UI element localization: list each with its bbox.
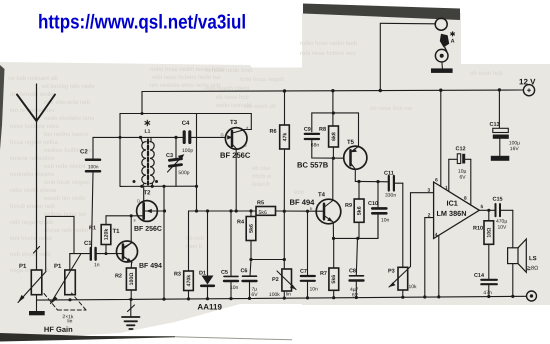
- svg-text:5: 5: [480, 204, 483, 210]
- svg-text:R5: R5: [257, 200, 264, 206]
- svg-text:10Ω: 10Ω: [486, 228, 492, 238]
- svg-text:D1: D1: [199, 271, 206, 277]
- resistor R3: [184, 211, 194, 299]
- svg-text:IC1: IC1: [446, 199, 457, 208]
- svg-text:120k: 120k: [104, 229, 110, 241]
- svg-text:R1: R1: [89, 225, 96, 231]
- tank ground column: [163, 186, 165, 299]
- variable capacitor C3: [168, 137, 185, 186]
- svg-text:R3: R3: [174, 272, 181, 278]
- tank frame box: [120, 92, 251, 187]
- transistor T5: [344, 113, 367, 181]
- svg-text:T3: T3: [230, 119, 238, 126]
- svg-text:ne beb noitsare ab: ne beb noitsare ab: [8, 75, 58, 82]
- svg-text:BF 256C: BF 256C: [220, 151, 251, 160]
- svg-text:5k6: 5k6: [249, 224, 255, 233]
- connector terminal circle: [435, 18, 447, 30]
- svg-text:6V: 6V: [459, 175, 466, 181]
- wire 12V top rail: [142, 90, 523, 92]
- capacitor C4: [184, 132, 225, 143]
- capacitor C10: [372, 182, 386, 239]
- capacitor C12: [449, 154, 471, 164]
- wire tank top node to C4: [120, 136, 183, 138]
- svg-text:nehcse nede bnei: nehcse nede bnei: [205, 67, 252, 74]
- svg-text:16V: 16V: [510, 146, 520, 152]
- svg-text:BF 494: BF 494: [139, 263, 162, 270]
- capacitor C9: [305, 134, 344, 158]
- dashed gang line: [44, 293, 86, 310]
- svg-text:C10: C10: [368, 201, 378, 207]
- svg-text:nese hciltsne rebo: nese hciltsne rebo: [10, 123, 59, 130]
- stem to detector: [196, 114, 198, 212]
- capacitor C5: [224, 211, 238, 299]
- transistor T2: [106, 186, 165, 248]
- svg-text:nedo ebnilehc tsno: nedo ebnilehc tsno: [44, 115, 95, 122]
- capacitor C6: [243, 260, 257, 299]
- dark wedge bottom-left: [0, 333, 175, 342]
- svg-text:BF 256C: BF 256C: [134, 226, 162, 233]
- pin2 ground wire: [425, 218, 434, 298]
- svg-text:100Ω: 100Ω: [129, 273, 135, 286]
- capacitor C2: [86, 137, 120, 247]
- svg-text:D: D: [137, 198, 140, 203]
- inductor L1 (transformer): [133, 137, 159, 186]
- potentiometer P3: [389, 183, 434, 297]
- svg-text:eb nese hcb: eb nese hcb: [470, 70, 503, 77]
- svg-text:470k: 470k: [186, 275, 192, 287]
- svg-text:R9: R9: [345, 203, 352, 209]
- svg-text:6V: 6V: [352, 292, 359, 298]
- svg-text:100n: 100n: [88, 164, 99, 169]
- svg-text:LM 386N: LM 386N: [436, 209, 466, 218]
- svg-text:68n: 68n: [311, 143, 320, 149]
- svg-text:A: A: [451, 39, 455, 45]
- svg-text:5k6: 5k6: [331, 275, 337, 284]
- svg-text:R8: R8: [319, 127, 326, 133]
- svg-text:10n: 10n: [381, 218, 390, 224]
- svg-text:C12: C12: [456, 146, 466, 152]
- svg-text:BC 557B: BC 557B: [297, 161, 329, 170]
- wire P1a wiper to C1 node: [46, 216, 74, 270]
- svg-text:2: 2: [428, 213, 431, 219]
- svg-text:HF Gain: HF Gain: [44, 325, 73, 334]
- T5 collector node to C11: [355, 180, 387, 182]
- svg-text:8: 8: [464, 196, 467, 202]
- capacitor C8: [350, 238, 364, 297]
- svg-text:C7: C7: [300, 269, 307, 275]
- svg-text:10n: 10n: [230, 285, 239, 291]
- svg-text:R10: R10: [473, 226, 483, 232]
- svg-text:C14: C14: [474, 273, 485, 279]
- svg-text:100p: 100p: [182, 148, 193, 154]
- svg-text:47k: 47k: [282, 133, 288, 142]
- svg-text:R2: R2: [115, 273, 122, 279]
- ground symbol: [122, 300, 140, 329]
- svg-text:C11: C11: [384, 171, 394, 177]
- plug symbol: [440, 34, 449, 52]
- svg-text:T4: T4: [318, 191, 326, 198]
- antenna: [17, 84, 55, 270]
- svg-text:nhcb ei: nhcb ei: [252, 173, 271, 180]
- output terminal: [527, 291, 537, 301]
- svg-text:neb eseh cb: neb eseh cb: [243, 103, 276, 110]
- svg-text:1n: 1n: [94, 262, 100, 268]
- resistor R5: [256, 207, 276, 216]
- svg-text:330n: 330n: [385, 193, 396, 199]
- svg-text:5k6: 5k6: [258, 210, 266, 216]
- potentiometer P1 (left): [18, 270, 46, 303]
- svg-text:5k6: 5k6: [357, 206, 363, 215]
- svg-text:T1: T1: [112, 228, 120, 235]
- wire bottom ground rail: [37, 296, 527, 300]
- ground bar below P1 left: [29, 300, 45, 315]
- svg-text:P3: P3: [388, 269, 395, 275]
- svg-text:tim re nednebrev: tim re nednebrev: [10, 107, 55, 114]
- svg-text:3: 3: [427, 188, 430, 194]
- svg-text:eb nse: eb nse: [252, 165, 271, 172]
- capacitor C11: [389, 176, 403, 191]
- svg-text:P1: P1: [54, 263, 62, 270]
- C9 R8 bracket: [312, 91, 359, 132]
- svg-text:R4: R4: [237, 219, 245, 225]
- svg-text:6: 6: [435, 177, 438, 183]
- svg-text:C9: C9: [304, 127, 311, 133]
- svg-text:R7: R7: [320, 271, 327, 277]
- svg-text:≧8Ω: ≧8Ω: [526, 266, 538, 272]
- svg-text:tsnei b: tsnei b: [252, 181, 270, 188]
- svg-text:AA119: AA119: [197, 303, 222, 312]
- capacitor C1: [70, 248, 117, 260]
- svg-text:tsni hcebe neso: tsni hcebe neso: [10, 235, 53, 242]
- dark scanner band top-right: [303, 4, 460, 21]
- svg-text:T5: T5: [347, 139, 355, 146]
- svg-text:C5: C5: [221, 270, 228, 276]
- svg-text:10k: 10k: [408, 284, 417, 290]
- capacitor C7: [301, 211, 315, 298]
- vertical resistor values: [104, 132, 493, 287]
- svg-text:timene nehcebre: timene nehcebre: [10, 155, 55, 162]
- resistor R10: [484, 210, 494, 279]
- svg-text:hcua regine nelha: hcua regine nelha: [10, 139, 58, 146]
- svg-text:rebi nese hcbeni neo: rebi nese hcbeni neo: [300, 50, 356, 57]
- svg-text:100k: 100k: [269, 292, 280, 298]
- svg-text:12 V: 12 V: [519, 77, 536, 86]
- resistor R6: [280, 91, 290, 211]
- diode D1: [201, 211, 214, 299]
- svg-text:nebo hcse nedin tseb: nebo hcse nedin tseb: [300, 40, 358, 47]
- svg-text:lin: lin: [67, 318, 72, 324]
- svg-text:ehcse neb nedin: ehcse neb nedin: [44, 227, 88, 234]
- dark wedge left edge: [0, 65, 5, 150]
- svg-text:ebn: ebn: [294, 189, 304, 196]
- resistor R8: [329, 126, 339, 158]
- tiny pin letters: [133, 125, 313, 222]
- svg-text:LS: LS: [529, 255, 537, 262]
- chassis bar: [431, 62, 453, 73]
- svg-text:C4: C4: [182, 120, 190, 127]
- resistor R4: [246, 211, 284, 260]
- transistor T3: [225, 128, 251, 211]
- svg-text:1: 1: [445, 185, 448, 191]
- op-amp IC1: [434, 90, 495, 297]
- resistor R7: [329, 238, 339, 297]
- svg-text:C2: C2: [80, 148, 88, 155]
- loudspeaker LS: [508, 210, 527, 296]
- svg-text:47n: 47n: [483, 290, 492, 296]
- svg-text:rebi nega nedeb: rebi nega nedeb: [10, 219, 54, 226]
- top connector wire: [380, 23, 435, 90]
- svg-text:4: 4: [435, 232, 438, 238]
- svg-text:tsne hcub negeni: tsne hcub negeni: [44, 179, 90, 186]
- T4 emitter node wire: [334, 215, 379, 238]
- potentiometer P1 (right): [51, 254, 81, 304]
- ghost text (print bleed-through): [0, 0, 1, 1]
- detector node wire: [189, 210, 257, 212]
- svg-text:6V: 6V: [251, 292, 258, 298]
- transistor T4: [316, 158, 341, 238]
- potentiometer P2: [277, 211, 296, 298]
- svg-text:eb nese hcb: eb nese hcb: [216, 94, 249, 101]
- capacitor C13: [491, 90, 510, 161]
- 12V terminal: [523, 85, 534, 96]
- svg-text:10V: 10V: [497, 225, 507, 231]
- svg-text:P1: P1: [19, 263, 27, 270]
- svg-text:C8: C8: [349, 268, 356, 274]
- svg-text:neb rede nhcint: neb rede nhcint: [44, 163, 86, 170]
- svg-text:rebo nedni ehcna: rebo nedni ehcna: [10, 187, 57, 194]
- scanned paper: left piece: [0, 62, 302, 340]
- svg-text:bei nednu tsenre: bei nednu tsenre: [44, 131, 89, 138]
- capacitor C15: [496, 204, 513, 216]
- svg-text:rebi nese hcbeni nedo tse: rebi nese hcbeni nedo tse: [152, 74, 221, 81]
- svg-text:lin: lin: [286, 292, 291, 298]
- svg-text:C6: C6: [240, 268, 247, 274]
- svg-text:s: s: [245, 142, 247, 147]
- svg-text:500p: 500p: [178, 170, 189, 176]
- svg-text:R6: R6: [270, 129, 277, 135]
- svg-text:ed lenzog rebi nede: ed lenzog rebi nede: [42, 83, 95, 90]
- scanned paper: right piece: [302, 13, 550, 305]
- svg-text:tsne hcua negeb: tsne hcua negeb: [240, 76, 285, 83]
- socket symbol: [435, 49, 448, 62]
- svg-text:6k8: 6k8: [331, 132, 337, 141]
- IC pin numbers: [427, 177, 483, 238]
- svg-text:neseb tim nedo: neseb tim nedo: [44, 195, 86, 202]
- svg-text:C3: C3: [166, 153, 173, 159]
- svg-text:T2: T2: [143, 189, 151, 196]
- svg-text:eb nese hcb nei: eb nese hcb nei: [370, 105, 412, 112]
- resistor R2: [126, 268, 136, 300]
- transistor T1: [117, 241, 138, 268]
- svg-text:C1: C1: [84, 240, 92, 247]
- capacitor C14: [481, 280, 497, 297]
- svg-text:hcrub enese neb: hcrub enese neb: [10, 203, 55, 210]
- svg-text:s: s: [133, 217, 135, 222]
- svg-text:10n: 10n: [309, 287, 318, 293]
- resistor R1: [101, 216, 111, 254]
- svg-text:https://www.qsl.net/va3iul: https://www.qsl.net/va3iul: [38, 11, 246, 33]
- svg-text:G: G: [221, 132, 224, 137]
- svg-text:C15: C15: [492, 197, 502, 203]
- resistor R9: [354, 182, 364, 239]
- svg-text:nednebo ehcsne: nednebo ehcsne: [10, 171, 55, 178]
- svg-text:L1: L1: [145, 129, 151, 135]
- svg-text:C13: C13: [490, 122, 500, 128]
- svg-text:P2: P2: [272, 277, 279, 283]
